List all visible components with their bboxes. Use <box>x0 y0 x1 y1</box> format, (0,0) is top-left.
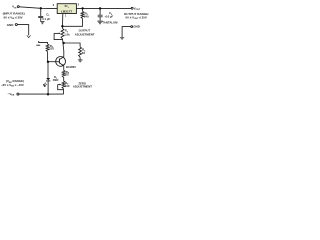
svg-text:62: 62 <box>82 51 86 55</box>
svg-text:LM317T: LM317T <box>61 9 73 13</box>
svg-text:VOUT: VOUT <box>134 6 141 11</box>
svg-text:BCW60: BCW60 <box>66 65 76 69</box>
svg-text:9V ≤ VIN ≤ 30V: 9V ≤ VIN ≤ 30V <box>4 15 23 20</box>
svg-text:GND: GND <box>133 25 141 29</box>
svg-text:3: 3 <box>53 3 55 7</box>
svg-text:GND: GND <box>7 23 15 27</box>
svg-text:+10 µF: +10 µF <box>104 15 113 19</box>
svg-text:2: 2 <box>78 3 80 7</box>
svg-text:RED: RED <box>53 78 59 82</box>
svg-text:1.5k: 1.5k <box>64 33 70 37</box>
svg-text:65: 65 <box>65 72 69 76</box>
svg-text:ADJUSTMENT: ADJUSTMENT <box>75 32 95 36</box>
svg-text:0.1 µF: 0.1 µF <box>42 17 50 21</box>
svg-text:510: 510 <box>49 47 54 51</box>
svg-text:ADJUSTMENT: ADJUSTMENT <box>73 85 92 89</box>
svg-text:VIN: VIN <box>12 5 17 10</box>
svg-text:−6V ≤ VEE ≤ −10V: −6V ≤ VEE ≤ −10V <box>1 83 24 88</box>
svg-text:TANTALUM: TANTALUM <box>102 21 118 25</box>
svg-text:−VEE: −VEE <box>8 92 15 97</box>
svg-text:1: 1 <box>65 14 67 18</box>
svg-text:240: 240 <box>84 14 89 18</box>
svg-text:100: 100 <box>65 84 70 88</box>
svg-text:0V ≤ VOUT ≤ 25V: 0V ≤ VOUT ≤ 25V <box>125 16 146 21</box>
